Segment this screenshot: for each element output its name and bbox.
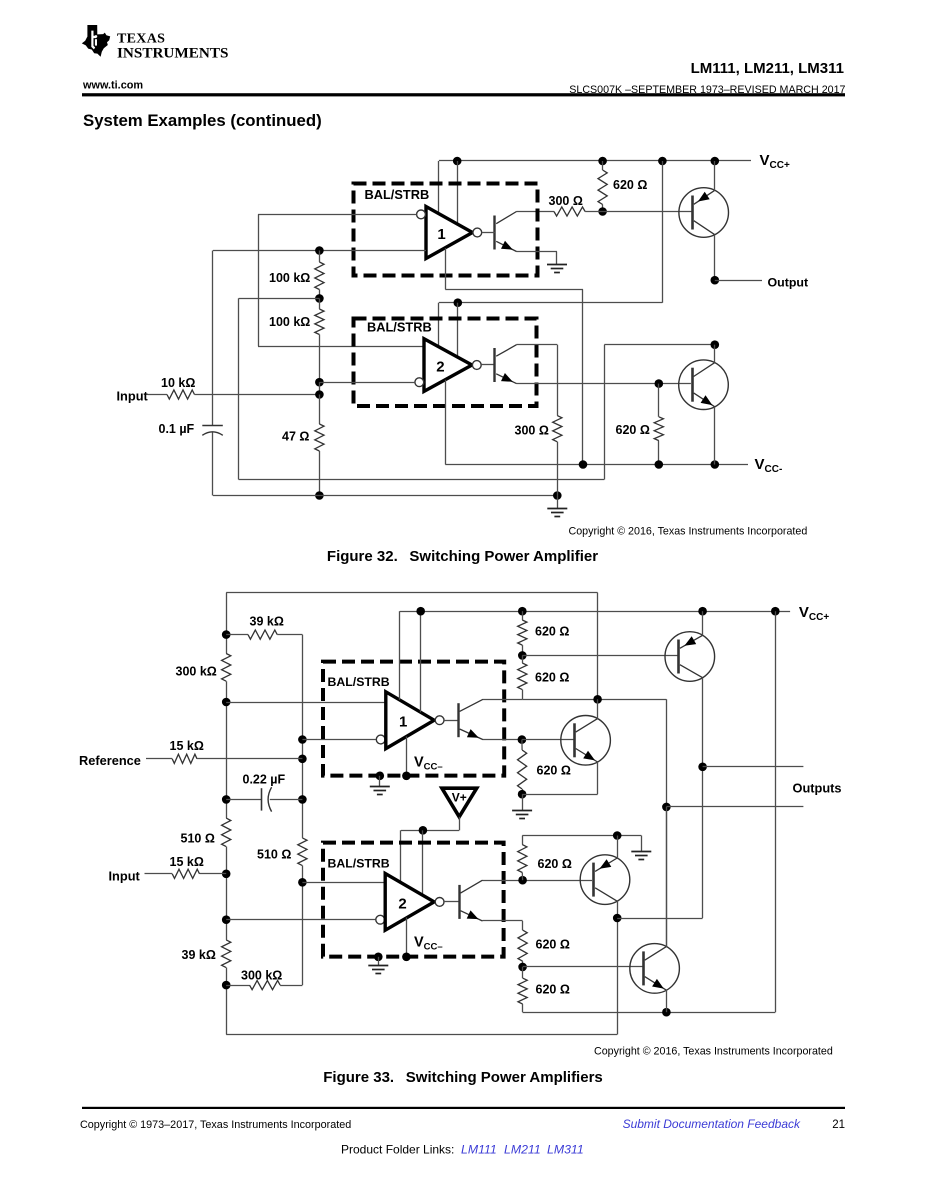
svg-text:2: 2: [398, 896, 406, 913]
svg-text:620 Ω: 620 Ω: [535, 625, 569, 639]
node rail / right boundary dot: [771, 607, 780, 616]
node T1 collector / output 1 dot: [698, 763, 707, 772]
wire comparator 2 V+ feed horizontal: [439, 302, 663, 304]
svg-text:Reference: Reference: [79, 753, 141, 768]
svg-text:0.22 µF: 0.22 µF: [243, 773, 286, 787]
resistor 620 ohm A fig33: [518, 620, 527, 645]
wire bottom boundary rise: [617, 918, 619, 1035]
wire T1 collector vertical: [702, 678, 704, 918]
wire 15k reference to node: [197, 758, 302, 760]
svg-text:Input: Input: [117, 389, 149, 404]
svg-text:INSTRUMENTS: INSTRUMENTS: [117, 44, 228, 61]
comparator U4 dashed box BAL/STRB fig33: [323, 843, 504, 957]
wire left vertical seg3: [226, 847, 228, 940]
wire Output 2 fig33: [666, 806, 803, 808]
node Vcc- / U1 minus junction dot: [579, 460, 588, 469]
pin bubble U2 output: [472, 361, 481, 370]
wire input node to 47 ohm: [319, 395, 321, 425]
svg-text:300 Ω: 300 Ω: [549, 194, 583, 208]
svg-text:LM111: LM111: [461, 1142, 497, 1156]
svg-text:BAL/STRB: BAL/STRB: [328, 857, 390, 871]
node 300k lower junction dot: [222, 981, 231, 990]
resistor R6 47 ohm fig32: [315, 424, 324, 451]
footer rule: [82, 1107, 845, 1109]
op-amp U3 comparator triangle 1: [386, 692, 434, 749]
wire mid vertical x302 upper: [302, 635, 304, 838]
node rail / U3 BAL dot: [416, 607, 425, 616]
wire U2 output bubble to internal base: [481, 364, 495, 366]
wire V+ apex stub: [459, 817, 461, 831]
wire 100k lower leads: [319, 298, 321, 309]
wire U4 minus pin: [406, 918, 408, 957]
wire feedback left segment: [239, 298, 320, 300]
wire right boundary vertical: [775, 611, 777, 1012]
svg-text:Input: Input: [109, 868, 141, 883]
svg-text:300 kΩ: 300 kΩ: [241, 969, 282, 983]
resistor 39 kohm upper fig33: [248, 630, 277, 639]
capacitor 0.22 uF fig33: [261, 788, 263, 810]
resistor R5 100 kohm lower fig32: [315, 309, 324, 335]
wire T3 collector vertical: [617, 901, 619, 918]
svg-text:620 Ω: 620 Ω: [538, 857, 572, 871]
resistor 620 ohm E fig33: [518, 930, 527, 961]
node feedback / Q2 collector junction dot: [711, 340, 720, 349]
wire U1 output bubble to internal base: [482, 232, 495, 234]
wire comparator 2 V+ feed rise to rail: [662, 161, 664, 303]
wire U3 collector cross run: [522, 699, 666, 701]
wire comparator 2 BAL pin: [457, 303, 459, 357]
wire top boundary drop: [597, 593, 599, 700]
wire Output 1 fig33: [703, 766, 804, 768]
node input junction dot: [315, 390, 324, 399]
resistor 510 ohm left fig33: [222, 818, 231, 847]
svg-text:39 kΩ: 39 kΩ: [250, 614, 284, 628]
transistor T4 NPN fig33: [630, 944, 680, 994]
wire 300k lower right lead: [280, 985, 302, 987]
wire U1 minus pin horizontal run: [445, 289, 583, 291]
wire Q1 emitter to Vcc+ rail: [714, 161, 716, 191]
transistor Q1 PNP top fig32: [679, 188, 729, 238]
wire 39k upper left lead: [226, 634, 248, 636]
svg-text:Figure 32. Switching Power Am: Figure 32. Switching Power Amplifier: [327, 548, 598, 565]
wire 620 ohm R3 bottom lead: [602, 205, 604, 212]
node Vcc+ / comparator 2 V+ junction dot: [658, 157, 667, 166]
wire Input lead: [148, 394, 168, 396]
svg-text:www.ti.com: www.ti.com: [82, 79, 143, 91]
svg-text:LM311: LM311: [547, 1142, 584, 1156]
wire T2 collector vertical: [597, 699, 599, 719]
svg-text:300 kΩ: 300 kΩ: [176, 665, 217, 679]
wire 620 ohm R8 top lead: [658, 384, 660, 417]
wire U3 ground stub: [379, 776, 381, 786]
node 620E / 620F / T4 base junction dot: [518, 963, 527, 972]
svg-text:620 Ω: 620 Ω: [613, 178, 647, 192]
node U3 minus pin dot: [402, 772, 411, 781]
svg-text:100 kΩ: 100 kΩ: [269, 271, 310, 285]
wire T3 emitter vertical: [617, 836, 619, 859]
wire 620C leads: [521, 740, 523, 750]
wire 620 ohm R8 bottom lead: [658, 441, 660, 465]
node Vcc+ / 620 ohm junction dot: [598, 157, 607, 166]
wire comparator 2 V+ pin: [438, 303, 440, 347]
wire ground stub 620C: [522, 794, 524, 810]
wire U2 emitter run to Q2 base: [517, 383, 691, 385]
wire U1 minus pin vertical: [445, 248, 447, 289]
pin bubble U4 output: [435, 898, 444, 907]
ground U4 fig33: [368, 965, 388, 967]
svg-text:Copyright © 2016, Texas Instru: Copyright © 2016, Texas Instruments Inco…: [569, 526, 808, 538]
wire 100k upper leads: [319, 251, 321, 263]
node U3 inverting input junction dot: [298, 735, 307, 744]
svg-text:15 kΩ: 15 kΩ: [170, 855, 204, 869]
node divider middle junction dot: [315, 294, 324, 303]
svg-text:620 Ω: 620 Ω: [535, 671, 569, 685]
resistor R7 300 ohm fig32 bottom: [553, 416, 562, 442]
wire U1 emitter ground stub: [556, 252, 558, 265]
wire bottom return run: [523, 1012, 776, 1014]
wire T4 emitter vertical: [666, 990, 668, 1012]
svg-text:V+: V+: [452, 790, 467, 804]
wire U3 emitter run: [483, 739, 522, 741]
wire 39k upper right lead: [277, 634, 302, 636]
resistor 15 kohm input fig33: [172, 869, 199, 878]
wire U1 plus input run: [213, 250, 426, 252]
wire U1 internal emitter run: [517, 251, 558, 253]
pin bubble U2 inverting input: [415, 378, 424, 387]
svg-text:BAL/STRB: BAL/STRB: [328, 675, 390, 689]
pin bubble U4 inverting input: [376, 915, 385, 924]
wire U1 minus pin drop to Vcc- rail: [582, 289, 584, 464]
svg-text:Product Folder Links:: Product Folder Links:: [341, 1142, 454, 1156]
ground U3 fig33: [370, 786, 390, 788]
wire U3 collector run: [483, 699, 522, 701]
ground under 620C fig33: [512, 810, 532, 812]
wire U2 inverting input lead: [319, 382, 415, 384]
svg-text:620 Ω: 620 Ω: [536, 938, 570, 952]
transistor U3 internal output BJT: [457, 703, 459, 737]
wire U3 inverting input run: [302, 739, 376, 741]
wire Input lead fig33: [145, 873, 173, 875]
wire feedback right vertical: [604, 345, 606, 480]
resistor 39 kohm lower fig33: [222, 940, 231, 968]
wire U3 output bubble to internal base: [444, 720, 458, 722]
node 620C top / T2 base junction dot: [518, 735, 527, 744]
wire 10 kohm to divider node: [195, 394, 320, 396]
wire comparator 1 collector to 300 ohm: [517, 211, 555, 213]
supply V+ triangle symbol: [442, 788, 477, 817]
node U4 plus input junction dot: [298, 878, 307, 887]
svg-text:Outputs: Outputs: [793, 780, 842, 795]
wire T4 collector vertical: [666, 807, 668, 947]
wire U4 output bubble to internal base: [444, 901, 459, 903]
wire comparator 1 BAL pin: [457, 161, 459, 224]
ground comparator 1 emitter fig32: [547, 264, 567, 266]
resistor 300 kohm lower fig33: [250, 981, 281, 990]
node divider top / U1 input junction dot: [315, 246, 324, 255]
wire U3 V+ pin: [399, 611, 401, 700]
wire capacitor C1 top vertical: [212, 251, 214, 426]
comparator U3 dashed box BAL/STRB fig33: [323, 662, 504, 776]
resistor 510 ohm mid fig33: [298, 838, 307, 866]
wire cap right lead: [270, 799, 303, 801]
wire 620E top corner: [522, 921, 524, 930]
transistor U2 internal output BJT: [493, 348, 495, 382]
resistor 620 ohm B fig33: [518, 663, 527, 690]
wire Q2 collector vertical: [714, 345, 716, 363]
node U3 ground pin dot: [376, 772, 385, 781]
node 300 ohm / 620 ohm / Q1 base junction dot: [598, 207, 607, 216]
node V+ / U4 BAL junction dot: [419, 826, 428, 835]
node Vcc- / Q2 emitter junction dot: [711, 460, 720, 469]
pin bubble U1 inverting input: [417, 210, 426, 219]
wire 15k input to node: [200, 873, 227, 875]
node U4 ground pin dot: [374, 953, 383, 962]
resistor R2 300 ohm fig32 top: [554, 207, 585, 216]
ground right of T3 fig33: [631, 851, 651, 853]
node U4 minus pin dot: [402, 953, 411, 962]
resistor 15 kohm reference: [172, 754, 197, 763]
wire 300 ohm R7 top lead: [557, 345, 559, 416]
wire left boundary upper: [226, 593, 228, 654]
header rule: [82, 93, 845, 96]
svg-text:10 kΩ: 10 kΩ: [161, 376, 195, 390]
svg-text:300 Ω: 300 Ω: [515, 423, 549, 437]
wire T4 base run: [523, 966, 643, 968]
wire U3 BAL pin: [420, 611, 422, 712]
wire U4 inverting input run: [226, 919, 375, 921]
wire 300 ohm to Q1 base: [585, 211, 692, 213]
wire U2 minus pin vertical: [445, 380, 447, 465]
node x666 / output 2 dot: [662, 803, 671, 812]
wire 620D bottom lead: [521, 873, 523, 881]
node input junction dot fig33: [222, 870, 231, 879]
wire feedback left vertical: [238, 298, 240, 479]
wire U4 emitter run: [483, 920, 523, 922]
wire top boundary fig33: [226, 592, 597, 594]
node U4 collector / 620D bottom dot: [518, 876, 527, 885]
wire Reference lead: [146, 758, 172, 760]
resistor R4 100 kohm upper fig32: [315, 262, 324, 290]
wire U2 collector run to 300 ohm: [517, 344, 558, 346]
resistor R1 10 kohm input fig32: [167, 390, 195, 399]
node 47 ohm / ground wire junction dot: [315, 491, 324, 500]
wire left vertical seg2: [226, 681, 228, 818]
wire left vertical seg4: [226, 968, 228, 1035]
wire comparator 1 V+ pin: [438, 161, 440, 213]
resistor 620 ohm F fig33: [518, 978, 527, 1004]
node collector run / T2 collector dot: [593, 695, 602, 704]
resistor R3 620 ohm fig32 top: [598, 170, 607, 205]
wire Output stub: [715, 280, 762, 282]
wire U3 plus input run: [226, 702, 386, 704]
wire U2 plus input horizontal: [258, 346, 424, 348]
wire T2 emitter run: [522, 794, 598, 796]
svg-text:1: 1: [437, 226, 445, 243]
wire Vcc+ rail fig33: [400, 611, 790, 613]
transistor T2 NPN fig33: [561, 716, 611, 766]
wire 620D top corner: [522, 836, 524, 845]
svg-text:LM211: LM211: [504, 1142, 541, 1156]
svg-text:620 Ω: 620 Ω: [616, 423, 650, 437]
svg-text:0.1 µF: 0.1 µF: [159, 422, 195, 436]
resistor R8 620 ohm fig32 bottom: [654, 417, 663, 441]
svg-text:47 Ω: 47 Ω: [282, 429, 309, 443]
svg-text:Copyright © 2016, Texas Instru: Copyright © 2016, Texas Instruments Inco…: [594, 1045, 833, 1057]
wire U4 ground stub: [378, 957, 380, 966]
op-amp U4 comparator triangle 2: [385, 874, 434, 931]
svg-text:1: 1: [399, 713, 407, 730]
op-amp U2 comparator triangle 2: [424, 339, 472, 392]
node rail / 620 stack dot: [518, 607, 527, 616]
wire Q2 emitter vertical: [714, 407, 716, 465]
wire 620B leads: [522, 655, 524, 663]
wire ground stub T3 area: [641, 836, 643, 852]
wire bottom ground run fig32: [213, 495, 557, 497]
wire U1/U2 input link vertical: [258, 214, 260, 346]
svg-text:Output: Output: [768, 275, 809, 289]
svg-text:Copyright © 1973–2017, Texas I: Copyright © 1973–2017, Texas Instruments…: [80, 1119, 351, 1131]
wire T1 emitter vertical: [702, 611, 704, 635]
wire feedback bottom horizontal: [239, 479, 605, 481]
pin bubble U3 inverting input: [376, 735, 385, 744]
ground bottom fig32: [547, 508, 567, 510]
capacitor C1 0.1 uF fig32: [202, 425, 223, 427]
svg-text:39 kΩ: 39 kΩ: [182, 948, 216, 962]
svg-text:Submit Documentation Feedback: Submit Documentation Feedback: [623, 1117, 801, 1131]
wire Vcc+ rail fig32: [439, 160, 751, 162]
node reference junction dot: [298, 755, 307, 764]
wire Vcc- rail fig32: [445, 464, 748, 466]
node comparator 2 BAL junction dot: [454, 298, 463, 307]
wire 47 ohm to ground wire: [319, 451, 321, 496]
node 620C bottom / T2 emitter junction dot: [518, 790, 527, 799]
wire bottom boundary fig33: [226, 1034, 617, 1036]
node 620A / 620B / T1 base junction dot: [518, 651, 527, 660]
transistor T1 PNP fig33: [665, 632, 715, 682]
node 39k branch junction dot: [222, 630, 231, 639]
node Vcc+ / Q1 emitter junction dot: [711, 157, 720, 166]
node T3 collector junction dot: [613, 914, 622, 923]
wire T1 base run: [522, 655, 678, 657]
node Q2 base / 620 ohm junction dot: [655, 379, 664, 388]
svg-text:510 Ω: 510 Ω: [257, 848, 291, 862]
svg-text:21: 21: [832, 1119, 845, 1131]
op-amp U1 comparator triangle 1: [426, 207, 473, 259]
svg-text:Figure 33. Switching Power Am: Figure 33. Switching Power Amplifiers: [323, 1069, 603, 1086]
svg-text:100 kΩ: 100 kΩ: [269, 315, 310, 329]
wire U4 V+ pin: [400, 830, 402, 892]
transistor T3 PNP fig33: [580, 855, 630, 905]
wire U3 minus pin: [406, 737, 408, 776]
node 620D run / T3 emitter dot: [613, 831, 622, 840]
wire ground stub fig32 bottom: [557, 496, 559, 509]
figure 33 group start: [79, 593, 842, 1058]
wire 620A leads: [522, 611, 524, 620]
wire feedback top right segment: [604, 344, 715, 346]
transistor U1 internal output BJT: [493, 216, 495, 250]
wire divider to input node: [319, 382, 321, 394]
node Output junction dot: [711, 276, 720, 285]
svg-text:620 Ω: 620 Ω: [536, 982, 570, 996]
svg-text:2: 2: [436, 358, 444, 375]
wire cap left lead: [226, 799, 261, 801]
node ground run / 300 ohm junction dot: [553, 491, 562, 500]
node rail / T1 emitter dot: [698, 607, 707, 616]
wire Q1 collector to Output node: [714, 235, 716, 281]
node Vcc- / 620 ohm junction dot: [655, 460, 664, 469]
svg-text:BAL/STRB: BAL/STRB: [365, 187, 430, 202]
node bottom run / T4 emitter dot: [662, 1008, 671, 1017]
node U4 inverting input junction dot: [222, 915, 231, 924]
wire 300 ohm R7 bottom lead: [557, 442, 559, 496]
resistor 620 ohm C fig33: [518, 750, 527, 789]
comparator U1 dashed box BAL/STRB fig32: [354, 184, 538, 276]
svg-text:15 kΩ: 15 kΩ: [170, 739, 204, 753]
wire 620E bottom lead: [522, 961, 524, 967]
wire V+ to comparator 2 supplies: [401, 830, 459, 832]
transistor U4 internal output BJT: [458, 885, 460, 919]
node Vcc+ / comparator 1 BAL junction dot: [453, 157, 462, 166]
svg-text:LM111, LM211, LM311: LM111, LM211, LM311: [691, 60, 844, 77]
pin bubble U1 output: [473, 228, 482, 237]
wire run corner drop x666: [666, 699, 668, 946]
node cap right junction dot: [298, 795, 307, 804]
wire mid vertical x302 lower: [302, 866, 304, 986]
wire T3 collector to T1 collector: [617, 918, 702, 920]
wire U4 collector run: [483, 880, 593, 882]
wire T2 base run: [522, 739, 575, 741]
svg-text:BAL/STRB: BAL/STRB: [367, 319, 432, 334]
wire U1 inverting input horizontal: [258, 214, 417, 216]
wire 620 ohm R3 top lead: [602, 161, 604, 170]
transistor Q2 NPN bottom fig32: [679, 360, 729, 410]
resistor 620 ohm D fig33: [518, 845, 527, 873]
node cap left junction dot: [222, 795, 231, 804]
wire T2 emitter vertical: [597, 762, 599, 794]
wire 300k lower left lead: [226, 985, 249, 987]
comparator U2 dashed box BAL/STRB fig32: [354, 319, 537, 407]
wire U4 plus input run: [302, 882, 385, 884]
svg-text:System Examples (continued): System Examples (continued): [83, 111, 322, 130]
resistor 300 kohm upper fig33: [222, 654, 231, 682]
svg-text:620 Ω: 620 Ω: [537, 764, 571, 778]
svg-text:510 Ω: 510 Ω: [181, 831, 215, 845]
wire U4 BAL pin: [422, 830, 424, 895]
figure 32 group start: [117, 152, 809, 538]
node reference divider junction dot: [222, 698, 231, 707]
node U2 inverting input junction dot: [315, 378, 324, 387]
wire capacitor C1 bottom vertical: [212, 432, 214, 495]
wire 620F leads: [522, 967, 524, 978]
wire 620D top run: [522, 835, 641, 837]
pin bubble U3 output: [435, 716, 444, 725]
TI logo Texas map: [82, 25, 110, 57]
